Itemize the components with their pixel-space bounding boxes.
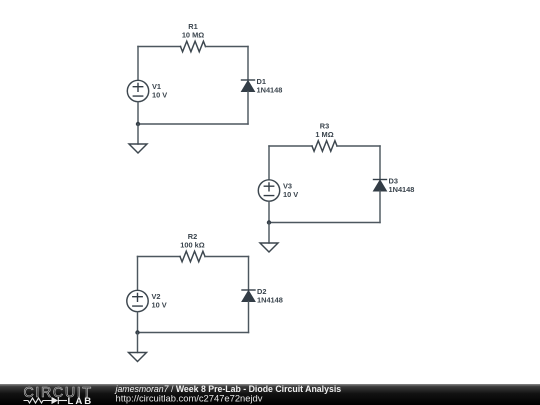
diode D1: [242, 80, 255, 92]
svg-text:10 V: 10 V: [283, 190, 298, 199]
svg-text:10 MΩ: 10 MΩ: [182, 31, 204, 40]
wire bottom segment (junction to bottom right corner): [138, 123, 248, 125]
voltage source V1: [127, 80, 148, 101]
wire left vertical lower (V3 minus terminal to bottom junction): [268, 201, 270, 222]
CircuitLab logo resistor-diode glyph: [24, 397, 68, 404]
wire ground stem: [137, 124, 139, 144]
wire top-left segment (V2 top corner to R2 left lead): [138, 256, 181, 258]
resistor R1: [181, 41, 206, 52]
svg-text:10 V: 10 V: [152, 91, 167, 100]
junction node (V2 minus / ground): [135, 330, 139, 334]
wire top-left segment (V3 top corner to R3 left lead): [269, 145, 312, 147]
svg-text:LAB: LAB: [68, 396, 94, 405]
svg-text:10 V: 10 V: [152, 301, 167, 310]
junction node (V1 minus / ground): [136, 122, 140, 126]
wire top-right segment (R3 right lead to diode branch corner): [337, 145, 380, 147]
ground (circuit 1): [129, 144, 147, 153]
svg-text:100 kΩ: 100 kΩ: [180, 241, 204, 250]
wire ground stem: [137, 333, 139, 353]
wire top-right segment (R2 right lead to diode branch corner): [205, 256, 249, 258]
svg-text:1N4148: 1N4148: [257, 86, 283, 95]
wire right vertical upper (top corner to D2 cathode): [248, 257, 250, 291]
wire top-right segment (R1 right lead to diode branch corner): [206, 46, 249, 48]
wire bottom segment (junction to bottom right corner): [269, 222, 380, 224]
wire right vertical lower (D1 anode to bottom corner): [247, 92, 249, 125]
wire right vertical upper (top corner to D1 cathode): [247, 47, 249, 81]
diode D3: [374, 180, 387, 192]
svg-text:1N4148: 1N4148: [257, 296, 283, 305]
wire left vertical upper (top corner down to V3 plus terminal): [268, 146, 270, 180]
CircuitLab logo wordmark CIRCUIT: [24, 385, 93, 401]
wire right vertical upper (top corner to D3 cathode): [379, 146, 381, 180]
svg-text:1 MΩ: 1 MΩ: [315, 130, 333, 139]
ground (circuit 2): [260, 243, 278, 252]
svg-text:http://circuitlab.com/c2747e72: http://circuitlab.com/c2747e72nejdv: [116, 393, 263, 404]
wire right vertical lower (D2 anode to bottom corner): [248, 302, 250, 333]
footer url text: [116, 393, 263, 404]
wire right vertical lower (D3 anode to bottom corner): [379, 191, 381, 223]
wire ground stem: [268, 223, 270, 244]
wire top-left segment (V1 top corner to R1 left lead): [138, 46, 181, 48]
resistor R3: [312, 141, 337, 152]
voltage source V3: [258, 180, 279, 201]
wire left vertical lower (V1 minus terminal to bottom junction): [137, 102, 139, 124]
CircuitLab logo wordmark LAB: [68, 396, 94, 405]
diode D2: [242, 290, 255, 302]
wire left vertical lower (V2 minus terminal to bottom junction): [137, 312, 139, 333]
junction node (V3 minus / ground): [267, 220, 271, 224]
wire left vertical upper (top corner down to V2 plus terminal): [137, 257, 139, 291]
wire bottom segment (junction to bottom right corner): [138, 332, 249, 334]
ground (circuit 3): [129, 353, 147, 362]
resistor R2: [180, 251, 205, 262]
footer title text: [115, 384, 342, 394]
svg-text:1N4148: 1N4148: [389, 185, 415, 194]
wire left vertical upper (top corner down to V1 plus terminal): [137, 47, 139, 81]
voltage source V2: [127, 290, 148, 311]
